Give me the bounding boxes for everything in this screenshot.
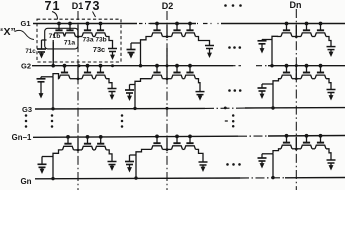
svg-text:Dn: Dn [290,0,302,10]
svg-text:71c: 71c [25,48,36,55]
svg-text:73: 73 [85,0,101,13]
svg-text:G2: G2 [21,62,31,71]
svg-text:D2: D2 [162,1,174,11]
svg-text:Gn−1: Gn−1 [12,133,32,142]
svg-text:73a: 73a [82,36,93,43]
svg-text:G3: G3 [22,105,32,114]
svg-text:71a: 71a [64,39,76,46]
svg-text:G1: G1 [20,19,30,28]
svg-text:Gn: Gn [20,177,31,186]
svg-text:“X”: “X” [0,26,16,38]
svg-text:71b: 71b [49,33,61,40]
svg-text:71: 71 [45,0,61,13]
svg-text:73c: 73c [93,45,105,54]
svg-text:73b: 73b [95,36,106,43]
svg-text:D1: D1 [72,1,84,11]
